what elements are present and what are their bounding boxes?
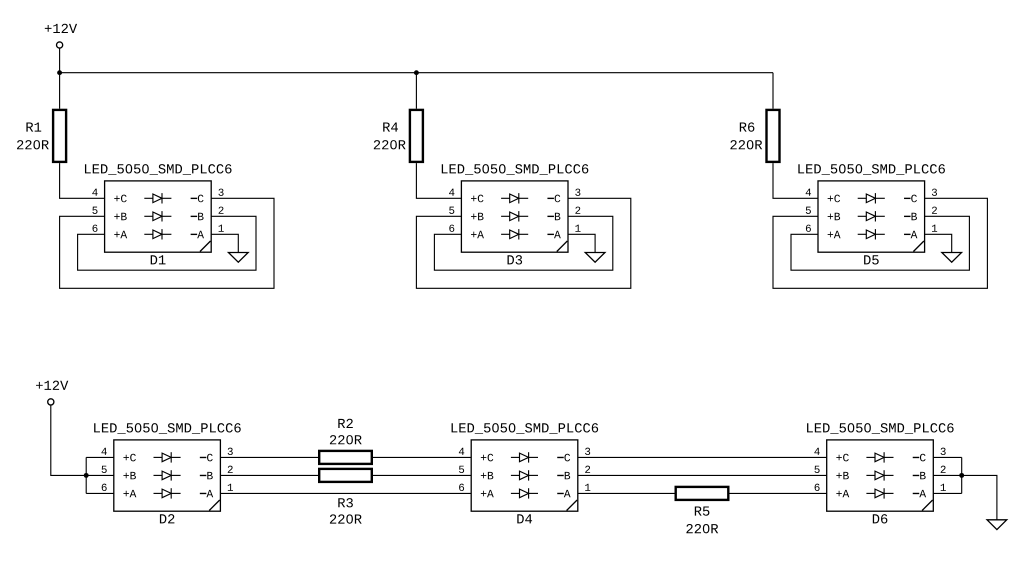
LED D4 internal diode row B [511, 470, 538, 480]
LED D6 reference label [873, 514, 888, 523]
LED D2 reference label [160, 514, 174, 523]
LED D2 corner marker [209, 500, 220, 511]
LED D4 corner marker [567, 500, 578, 511]
junction bus tap R1 [57, 70, 62, 75]
LED D4 internal diode row C [511, 452, 538, 462]
LED D4 symbol body [471, 440, 578, 511]
LED D5 reference label [864, 255, 879, 264]
wire D4 pin 2 to D6 pin 5 [578, 474, 827, 476]
LED D2 pin names -C -B -A [200, 454, 213, 498]
LED D5 pin numbers 4 5 6 [806, 189, 811, 232]
LED D6 internal diode row B [866, 470, 893, 480]
resistor R3 220R (horizontal) [319, 469, 372, 524]
LED D5 internal diode row C [858, 193, 885, 203]
wire D5 pin 3 to pin 5 loop [773, 198, 987, 288]
LED D2 pin names +C +B +A [123, 454, 136, 498]
wire D2 pin 1 to D4 pin 6 [220, 492, 471, 494]
LED D1 pin names +C +B +A [114, 195, 127, 239]
LED D2 internal diode row A [154, 488, 181, 498]
wire D3 pin 2 to pin 6 loop [434, 216, 612, 270]
wire D1 pin 2 to pin 6 loop [78, 216, 256, 270]
LED D5 internal diode row A [858, 229, 885, 239]
LED D6 internal diode row A [866, 488, 893, 498]
wire R5 to D6 pin 6 [730, 492, 827, 494]
LED D6 pin names +C +B +A [836, 454, 849, 498]
LED component D5 label LED_5050_SMD_PLCC6 [798, 164, 945, 175]
LED D2 internal diode row C [154, 452, 181, 462]
LED D4 pin numbers 4 5 6 [459, 448, 464, 491]
LED D1 pin names -C -B -A [191, 195, 204, 239]
LED D1 internal diode row A [144, 229, 171, 239]
LED D3 internal diode row A [501, 229, 528, 239]
LED D3 symbol body [461, 181, 568, 252]
resistor R6 220R (vertical) [730, 110, 779, 162]
wire R3 to D4 pin 5 [373, 474, 471, 476]
resistor R1 220R (vertical) [17, 110, 66, 162]
wire bus corner down to R6 [772, 73, 774, 109]
LED D4 reference label [517, 514, 532, 523]
LED D2 symbol body [114, 440, 221, 511]
LED component D3 label LED_5050_SMD_PLCC6 [442, 164, 589, 175]
wire D6 to ground [962, 475, 997, 519]
wire power to bus and R1 [59, 48, 61, 109]
LED D5 symbol body [818, 181, 925, 252]
wire D3 pin 3 to pin 5 loop [416, 198, 630, 288]
LED D3 internal diode row B [501, 211, 528, 221]
junction D6 output [959, 473, 964, 478]
LED D1 pin numbers 3 2 1 [218, 189, 223, 232]
LED component D1 label LED_5050_SMD_PLCC6 [85, 164, 232, 175]
LED D2 internal diode row B [154, 470, 181, 480]
wire D5 pin 2 to pin 6 loop [791, 216, 969, 270]
power symbol +12V (top) [45, 24, 77, 48]
LED D3 pin names +C +B +A [471, 195, 484, 239]
wire D4 pin 1 to R5 [578, 492, 675, 494]
ground (bottom right) [987, 520, 1007, 530]
LED D1 symbol body [105, 181, 212, 252]
LED D4 internal diode row A [511, 488, 538, 498]
resistor R5 220R (horizontal) [676, 487, 729, 533]
LED D5 pin names +C +B +A [828, 195, 841, 239]
LED D3 internal diode row C [501, 193, 528, 203]
LED component D2 label LED_5050_SMD_PLCC6 [94, 423, 241, 434]
LED component D4 label LED_5050_SMD_PLCC6 [452, 423, 599, 434]
LED D6 symbol body [827, 440, 934, 511]
wire D1 pin 1 to ground [211, 234, 238, 252]
junction D2 feed [84, 473, 89, 478]
wire R4 to D3 pin 4 [416, 163, 461, 198]
LED D6 pin numbers 4 5 6 [814, 448, 819, 491]
LED D5 internal diode row B [858, 211, 885, 221]
LED D2 pin numbers 3 2 1 [228, 448, 233, 491]
LED D3 pin names -C -B -A [547, 195, 560, 239]
LED D1 corner marker [200, 241, 211, 252]
LED D1 reference label [151, 255, 166, 264]
LED D3 pin numbers 3 2 1 [575, 189, 580, 232]
wire R6 to D5 pin 4 [773, 163, 818, 198]
power symbol +12V (bottom) [36, 381, 68, 405]
LED D5 pin numbers 3 2 1 [932, 189, 937, 232]
ground (below D1) [228, 253, 248, 263]
LED D6 internal diode row C [866, 452, 893, 462]
LED D6 corner marker [922, 500, 933, 511]
LED D4 pin names -C -B -A [557, 454, 570, 498]
wire D1 pin 3 to pin 5 loop [60, 198, 274, 288]
LED D3 corner marker [557, 241, 568, 252]
LED D3 reference label [508, 255, 523, 264]
wire +12V top bus [60, 72, 773, 74]
LED D4 pin names +C +B +A [481, 454, 494, 498]
wire bus tap to R4 [415, 73, 417, 109]
wire D5 pin 1 to ground [925, 234, 952, 252]
LED D1 internal diode row C [144, 193, 171, 203]
LED D1 pin numbers 4 5 6 [92, 189, 97, 232]
resistor R2 220R (horizontal) [319, 419, 372, 464]
wire D2 pin 2 to R3 [220, 474, 318, 476]
ground (below D3) [585, 253, 605, 263]
LED D3 pin numbers 4 5 6 [449, 189, 454, 232]
wire R2 to D4 pin 4 [373, 456, 471, 458]
ground (below D5) [942, 253, 962, 263]
LED D5 pin names -C -B -A [904, 195, 917, 239]
wire D2 pins 4,5,6 tie [86, 457, 114, 493]
LED D6 pin names -C -B -A [913, 454, 926, 498]
wire D3 pin 1 to ground [568, 234, 595, 252]
junction bus tap R4 [414, 70, 419, 75]
LED D5 corner marker [913, 241, 924, 252]
resistor R4 220R (vertical) [374, 110, 423, 162]
wire R1 to D1 pin 4 [60, 163, 105, 198]
wire +12V down to D2 feed [51, 405, 86, 476]
wire D4 pin 3 to D6 pin 4 [578, 456, 827, 458]
LED component D6 label LED_5050_SMD_PLCC6 [807, 423, 954, 434]
LED D1 internal diode row B [144, 211, 171, 221]
wire D2 pin 3 to R2 [220, 456, 318, 458]
LED D2 pin numbers 4 5 6 [101, 448, 106, 491]
LED D6 pin numbers 3 2 1 [941, 448, 946, 491]
wire D6 pins 3,2,1 tie [933, 457, 961, 493]
LED D4 pin numbers 3 2 1 [585, 448, 590, 491]
